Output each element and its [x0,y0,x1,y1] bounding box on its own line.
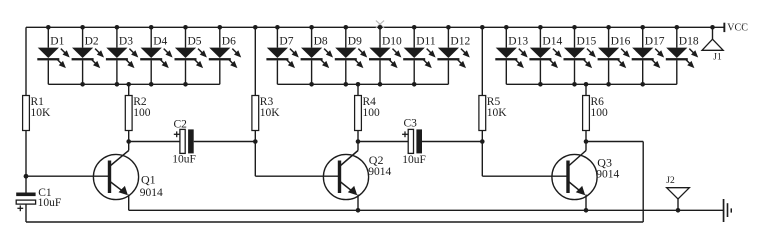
LED D4 [140,25,172,87]
svg-text:D9: D9 [348,36,362,48]
LED D6 [209,25,241,84]
wire: LED group 2 cathode rail [277,83,448,85]
svg-text:D7: D7 [279,36,293,48]
svg-text:10uF: 10uF [402,154,426,166]
svg-text:D6: D6 [222,36,236,48]
svg-text:J2: J2 [666,176,675,186]
LED D8 [301,25,333,87]
connector J1 [702,25,723,50]
svg-text:J1: J1 [713,52,722,62]
svg-text:D4: D4 [153,36,167,48]
LED D1 [37,25,69,84]
LED D11 [403,25,435,87]
wire: feedback drop [642,142,644,223]
wire: Q3 collector node to feedback drop [586,141,643,143]
svg-text:C3: C3 [404,118,418,130]
LED D15 [564,25,596,87]
connector J2 [667,188,690,213]
node: Q3 emitter junction [584,208,589,213]
LED D2 [72,25,104,87]
LED D10 [369,25,401,87]
svg-text:D12: D12 [450,36,470,48]
VCC terminal [723,23,725,32]
node: top rail mark above D10 [376,21,384,28]
svg-text:D10: D10 [382,36,402,48]
LED D17 [632,25,664,87]
svg-text:D2: D2 [85,36,99,48]
wire: R1 to Q1 base [26,175,111,177]
ground [723,199,732,222]
wire: emitter ground rail [129,209,723,211]
wire: C3 to Q3 base node [422,141,482,143]
svg-text:10K: 10K [260,107,281,119]
wire: LED group 3 cathode rail [506,83,677,85]
transistor Q3 [552,142,597,211]
node: Q2 emitter junction [356,208,361,213]
svg-text:10K: 10K [487,107,508,119]
svg-text:D16: D16 [611,36,631,48]
svg-text:VCC: VCC [727,23,748,34]
wire: LED group 1 cathode rail [48,83,220,85]
svg-text:D1: D1 [50,36,64,48]
svg-text:9014: 9014 [140,187,163,199]
svg-text:100: 100 [363,107,381,119]
svg-text:D17: D17 [645,36,665,48]
svg-text:D8: D8 [314,36,328,48]
svg-text:D14: D14 [542,36,562,48]
LED D9 [335,25,367,87]
capacitor C2 [174,129,194,153]
svg-text:9014: 9014 [596,169,619,181]
resistor R3 [252,25,259,144]
resistor R6 [583,82,590,144]
svg-text:C2: C2 [174,118,188,130]
wire: R3 to Q2 base [254,142,256,177]
svg-text:100: 100 [133,107,151,119]
svg-text:10K: 10K [31,107,52,119]
svg-text:D3: D3 [119,36,133,48]
svg-text:10uF: 10uF [172,154,196,166]
LED D7 [266,25,298,84]
wire: feedback bottom rail to C1 [26,221,643,223]
LED D13 [495,25,527,84]
svg-text:D11: D11 [416,36,436,48]
transistor Q2 [323,142,368,211]
svg-text:10uF: 10uF [38,197,62,209]
svg-text:100: 100 [591,107,609,119]
wire: VCC top rail [26,26,724,28]
LED D18 [666,25,698,84]
svg-text:Q3: Q3 [597,155,612,169]
resistor R5 [479,25,486,144]
wire: Q1 collector node to C2 [129,141,180,143]
resistor R4 [355,82,362,144]
resistor R1 [23,27,30,178]
capacitor C3 [402,129,422,153]
capacitor C1 [16,176,35,222]
svg-text:D18: D18 [679,36,699,48]
LED D16 [598,25,630,87]
svg-text:9014: 9014 [368,166,391,178]
LED D3 [106,25,138,87]
transistor Q1 [93,142,138,211]
svg-text:D15: D15 [577,36,597,48]
LED D5 [175,25,207,87]
resistor R2 [125,82,132,144]
svg-text:D5: D5 [188,36,202,48]
svg-text:D13: D13 [508,36,528,48]
svg-text:Q1: Q1 [141,172,156,186]
wire: Q2 collector node to C3 [358,141,408,143]
wire: C2 to Q2 base node [194,141,256,143]
wire: R5 to Q3 base [481,142,483,177]
LED D12 [437,25,469,84]
LED D14 [529,25,561,87]
